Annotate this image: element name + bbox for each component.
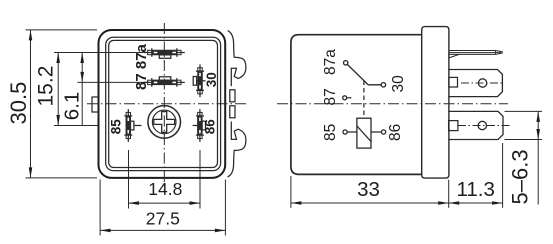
svg-text:85: 85 bbox=[109, 119, 124, 135]
body recess wall inner bbox=[109, 40, 218, 167]
extension blade bottom edge bbox=[505, 139, 543, 141]
arrowheads 6.1 bbox=[80, 53, 84, 64]
svg-text:87 87a: 87 87a bbox=[133, 43, 150, 90]
svg-text:85: 85 bbox=[322, 124, 339, 141]
mounting screw bbox=[148, 106, 181, 139]
relay body outline (side view) bbox=[291, 35, 422, 175]
extension blade top edge bbox=[505, 110, 543, 112]
terminal 30 blade (side view, middle) bbox=[448, 70, 503, 97]
arrowheads 30.5 bbox=[29, 30, 33, 41]
svg-text:15.2: 15.2 bbox=[35, 66, 58, 107]
right top retaining hook bbox=[228, 31, 246, 87]
body recess wall outer bbox=[106, 37, 221, 170]
svg-text:33: 33 bbox=[357, 178, 380, 201]
relay body outline (bottom view) bbox=[99, 30, 226, 178]
extension line below pin 85 bbox=[128, 150, 130, 209]
blade 30 centerline bbox=[461, 82, 503, 84]
extension line pin 87 level bbox=[78, 81, 148, 83]
switch arm 87a-30 bbox=[347, 65, 381, 85]
pin 86 (vertical blade, bottom right) bbox=[193, 109, 206, 142]
pin 85 (vertical blade, bottom left) bbox=[124, 109, 141, 142]
extension line bottom (y=177.9) bbox=[26, 177, 98, 179]
dimension line 15.2 bbox=[57, 53, 59, 126]
wire coil-86 bbox=[371, 131, 382, 133]
coil diagonal bbox=[357, 126, 371, 142]
terminal circle 86 bbox=[382, 130, 386, 134]
centerline horizontal (left view) bbox=[87, 103, 247, 105]
blade 85/86 centerline bbox=[458, 125, 510, 127]
dimension line 27.5 bbox=[100, 229, 225, 231]
arrowheads 14.8 bbox=[129, 201, 140, 205]
pin 87a (horizontal blade, top) bbox=[144, 48, 185, 58]
extension below blade tips bbox=[502, 143, 504, 208]
mounting flange bbox=[422, 27, 449, 179]
extension line below pin 86 bbox=[199, 150, 201, 209]
svg-text:30: 30 bbox=[204, 72, 219, 87]
terminal circle 85 bbox=[343, 130, 347, 134]
terminal 85/86 blade (side view, bottom) bbox=[448, 111, 510, 139]
actuation dashed link bbox=[363, 81, 365, 119]
pin 87 (horizontal blade, below 87a) bbox=[144, 77, 185, 87]
right bottom retaining hook bbox=[228, 122, 246, 178]
extension line below body left corner bbox=[99, 180, 101, 236]
dimension line 14.8 bbox=[129, 202, 201, 204]
arrowheads 15.2 bbox=[56, 53, 60, 64]
svg-text:11.3: 11.3 bbox=[457, 178, 495, 201]
arrowheads 33 bbox=[291, 201, 302, 205]
dimension line 33 / 11.3 bbox=[291, 202, 503, 204]
svg-text:30: 30 bbox=[390, 75, 407, 93]
extension line top (y=29.9) bbox=[26, 29, 98, 31]
terminal circle 87 bbox=[343, 96, 347, 100]
svg-text:5–6.3: 5–6.3 bbox=[508, 149, 533, 204]
extension line pin 87a level bbox=[54, 52, 144, 54]
pin 30 (vertical blade, right) bbox=[193, 64, 205, 97]
right lower tab bbox=[230, 106, 235, 118]
svg-text:14.8: 14.8 bbox=[148, 179, 182, 199]
arrowheads 11.3 bbox=[449, 201, 460, 205]
stub wire 87 bbox=[347, 97, 352, 99]
gusset under blade base bbox=[449, 54, 460, 58]
coil box bbox=[357, 118, 371, 148]
phillips cross bbox=[154, 112, 175, 133]
terminal 87/87a blade (edge view, top) bbox=[449, 51, 502, 58]
blade 85/86 hole bbox=[478, 121, 486, 129]
blade 85/86 lock notch bbox=[449, 121, 458, 131]
svg-text:86: 86 bbox=[203, 119, 218, 135]
dimension line 6.1 (extends below) bbox=[81, 53, 83, 126]
arrowheads 5-6.3 bbox=[536, 111, 540, 122]
main centerline (side view) bbox=[277, 103, 508, 105]
blade 30 lock notch bbox=[449, 77, 458, 87]
dimension line 5-6.3 bbox=[537, 111, 539, 204]
svg-text:86: 86 bbox=[387, 124, 404, 141]
arrowheads 27.5 bbox=[100, 229, 111, 233]
terminal circle 30 bbox=[381, 83, 385, 87]
svg-text:27.5: 27.5 bbox=[146, 209, 180, 229]
extension below body left bbox=[290, 176, 292, 208]
extension line pins 85/86 level bbox=[54, 125, 98, 127]
extension line below body right corner bbox=[224, 180, 226, 236]
blade 30 hole bbox=[478, 79, 486, 87]
dimension line 30.5 bbox=[30, 30, 32, 178]
right upper tab bbox=[230, 90, 235, 102]
left side tab bbox=[92, 97, 99, 112]
terminal circle 87a bbox=[344, 61, 348, 65]
centerline vertical (left view) bbox=[163, 23, 165, 192]
svg-text:6.1: 6.1 bbox=[60, 92, 83, 121]
svg-text:30.5: 30.5 bbox=[6, 82, 31, 125]
wire 85-coil bbox=[347, 131, 357, 133]
svg-text:87: 87 bbox=[322, 88, 339, 105]
svg-text:87a: 87a bbox=[322, 49, 339, 75]
extension below flange right bbox=[448, 180, 450, 208]
